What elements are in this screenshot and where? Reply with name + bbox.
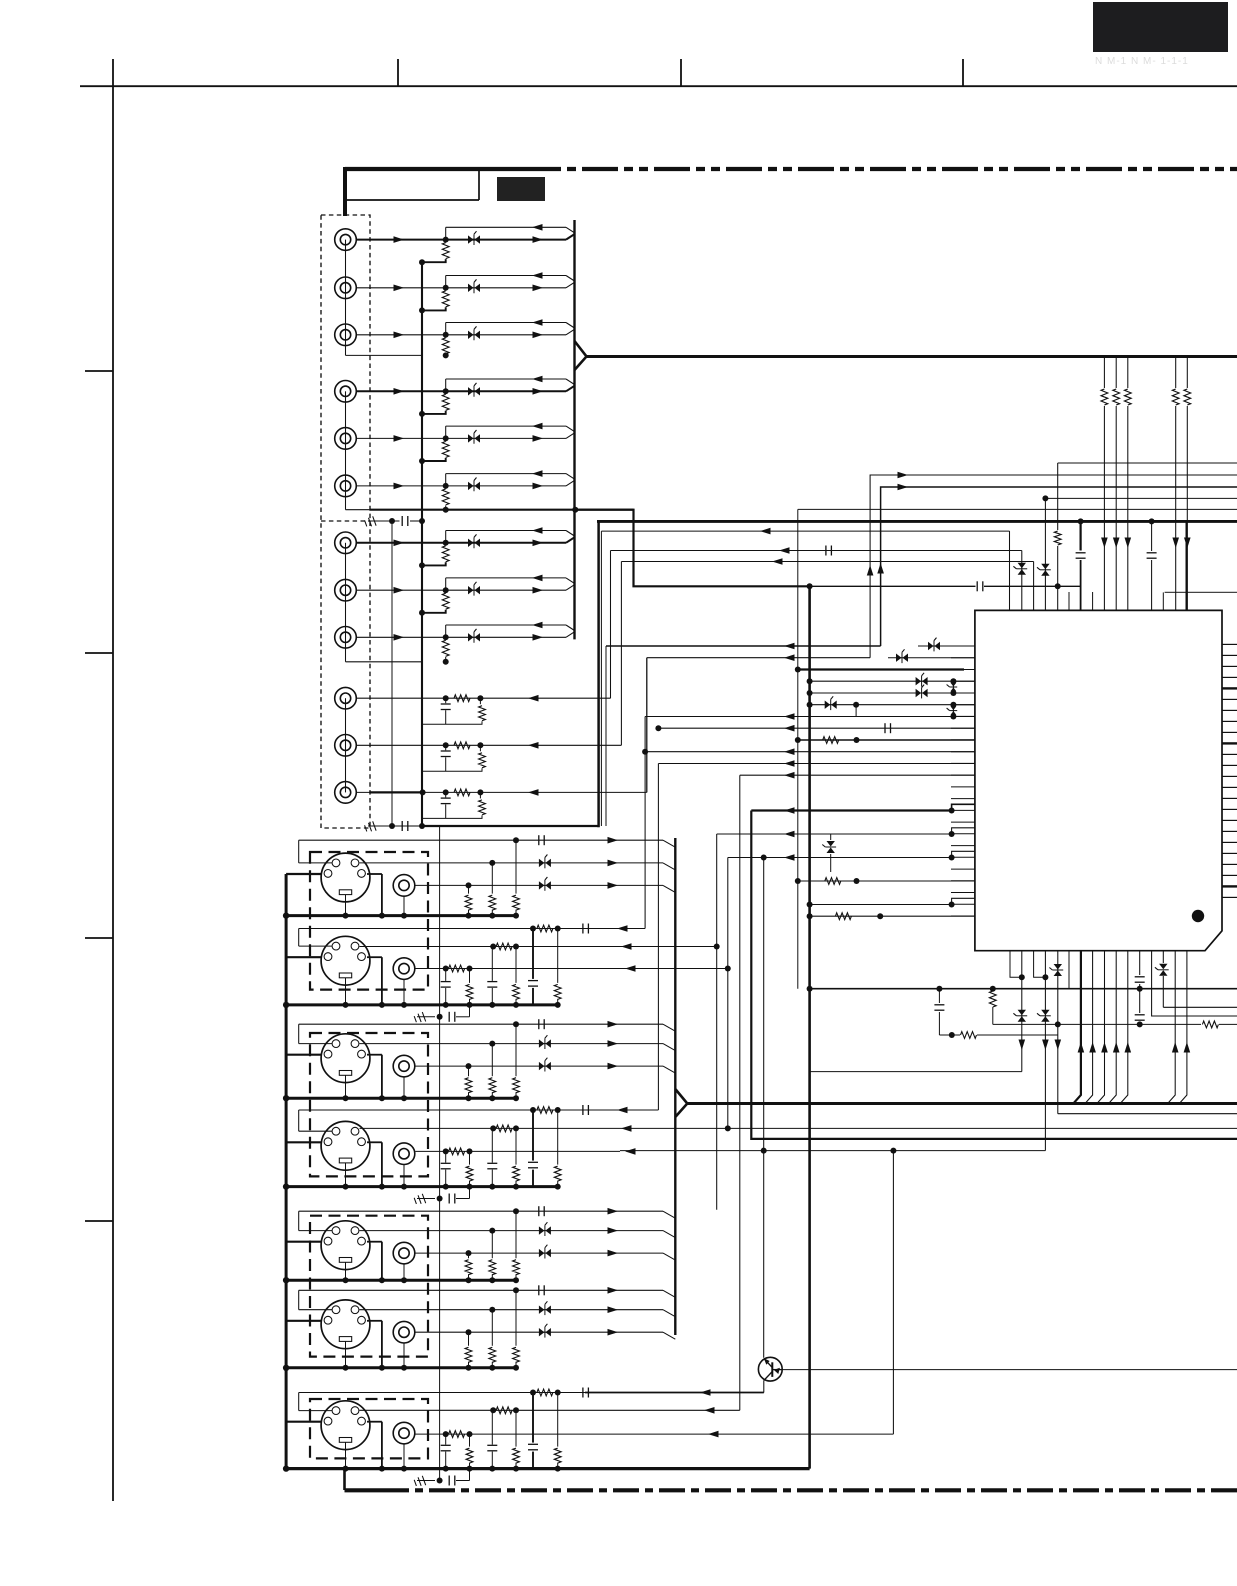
arrow rec A up — [877, 563, 884, 574]
RCA jack J8 — [335, 579, 357, 601]
wire: SV5 shield drop — [381, 1242, 383, 1281]
wire: R6 to bus — [445, 505, 447, 509]
wire: record out B — [870, 475, 1237, 658]
merge arrow SV6 y1332 — [608, 1329, 619, 1336]
wire: down feed x1045 with filter — [1044, 951, 1046, 1151]
wire: filter drop x1163 — [1162, 951, 1164, 963]
arrow J2 out b — [533, 285, 544, 292]
wire: J12 riser — [646, 658, 648, 793]
wire: J11 signal in — [356, 744, 621, 746]
wire: up feed x1080 — [1073, 951, 1081, 1104]
merge arrow SV1 y840 — [608, 837, 619, 844]
RCA jack J6 — [335, 475, 357, 497]
left tick 4 — [85, 1220, 113, 1222]
filter FL22 (vertical) — [830, 834, 832, 840]
resistor R9 — [442, 640, 449, 656]
S-video panel dashed box 4 — [310, 1399, 428, 1458]
junction J1 — [443, 237, 449, 243]
title block (filled) — [1093, 2, 1228, 52]
wire: SV7 key ground — [345, 1442, 347, 1468]
capacitor C41 — [884, 723, 886, 733]
wire: aux riser x797 — [797, 509, 799, 988]
resistor Rs5 x516 — [515, 1211, 517, 1258]
wire: aux riser x1045 with filter — [1044, 498, 1046, 610]
page border top rule — [80, 85, 1237, 87]
wire: link to IC top region — [810, 585, 976, 587]
resistor Rs3 x516 — [515, 1024, 517, 1076]
wire: JV7 ground — [403, 1444, 405, 1469]
wire: SV5 w2 — [360, 1230, 664, 1232]
connector label block (filled) — [497, 177, 545, 201]
capacitor C12 — [445, 792, 447, 797]
wire: J4 return from bus — [446, 378, 566, 380]
wire: y1007 to right edge — [1163, 1006, 1237, 1008]
resistor Rsv4e — [515, 1128, 517, 1164]
U1 bottom stub x1069 — [1068, 951, 1070, 989]
arrow up x1186 — [1184, 1042, 1191, 1053]
wire: aux line y509 — [798, 508, 1237, 510]
capacitor Csv4d — [527, 1161, 539, 1170]
wire: SV6 hook — [299, 1309, 332, 1311]
wire: J8 return from bus — [446, 577, 566, 579]
wire: J5 merge into bus — [566, 433, 575, 439]
component ground bus — [421, 263, 423, 826]
arrow J9 out a — [394, 634, 405, 641]
wire: U1 p9 line — [798, 739, 975, 741]
bus riser to shield bus B — [597, 521, 600, 827]
merge arrow SV5 y1253 — [608, 1250, 619, 1257]
merge arrow SV3 y1066 — [608, 1063, 619, 1070]
wire: g7 w1 link (thick) — [585, 1392, 764, 1394]
S-video panel dashed box 1 — [310, 852, 428, 990]
wire: up feed x1186 — [1179, 951, 1187, 1104]
wire: R7 to bus — [422, 562, 446, 565]
wire: JV4 ground — [403, 1165, 405, 1187]
wire: J6 signal out — [356, 485, 566, 487]
filter FL5 — [468, 434, 474, 442]
S-video connector SV4 — [321, 1121, 370, 1170]
resistor R55 — [1053, 530, 1063, 546]
wire: J3 merge into bus — [566, 329, 575, 335]
resistor Rsv2f — [469, 969, 471, 983]
capacitor Csv7a — [582, 1388, 584, 1398]
wire: SV3 chassis stub — [286, 1054, 321, 1056]
wire: J5 return drop — [445, 426, 447, 438]
arrow J1 return — [532, 224, 543, 231]
group 5 bottom bus (thick) — [286, 1279, 517, 1282]
group 6 bottom bus (thick) — [286, 1366, 517, 1369]
RCA jack JV2 — [393, 958, 415, 980]
capacitor C52 drop — [938, 989, 940, 1003]
wire: network ground 12 — [422, 815, 482, 818]
wire: up feed x1116 — [1108, 951, 1116, 1104]
arrow rec B up — [867, 565, 874, 576]
filter FL20 — [918, 645, 975, 647]
wire: SV7 w2 — [360, 1409, 740, 1411]
shield boundary dash-dot line (bottom) — [345, 1488, 384, 1492]
junction J10a — [443, 695, 449, 701]
wire: top pin riser B with filter — [1021, 551, 1023, 611]
resistor Rsv2b — [490, 944, 496, 950]
riser g2w1 — [644, 717, 646, 929]
capacitor Csv2a — [582, 924, 584, 934]
wire: R3 to bus — [445, 354, 447, 355]
wire: J4 return drop — [445, 379, 447, 391]
arrow J2 return — [532, 272, 543, 279]
resistor Rsv7b — [490, 1407, 496, 1413]
arrow up x1116 — [1113, 1042, 1120, 1053]
group 7 bottom bus (thick) — [283, 1465, 289, 1471]
junction W4a — [807, 583, 813, 589]
filter FLs6a — [539, 1306, 545, 1314]
wire: U1 p5 line — [810, 692, 975, 694]
wire: SV1 w1 — [299, 839, 663, 841]
wire: J3 return from bus — [446, 322, 566, 324]
wire: J9 signal out — [356, 636, 566, 638]
S-video connector SV1 — [321, 853, 370, 902]
U1 pin-1 index dot — [1192, 910, 1204, 922]
resistor Rs5 x492 — [491, 1231, 493, 1259]
wire: SV4 key ground — [345, 1163, 347, 1187]
wire: U1 p17 line — [717, 833, 952, 835]
arrow J7 out b — [533, 540, 544, 547]
wire: riser to S-video 7 — [892, 1151, 894, 1435]
resistor R12b — [479, 792, 481, 798]
wire: U1 p8 line — [658, 727, 975, 729]
wire: SV4 chassis stub — [286, 1141, 321, 1143]
ground assembly below group 4 — [414, 1194, 426, 1206]
wire: J11 riser — [620, 562, 622, 746]
wire: R8 to bus — [422, 610, 446, 613]
wire: R1 to bus — [422, 259, 446, 262]
wire: jacks 1-3 ground chain — [345, 240, 347, 356]
capacitor Csv2f — [445, 969, 447, 981]
RCA jack J2 — [335, 277, 357, 299]
resistor R10b — [479, 698, 481, 704]
arrow J6 return — [532, 470, 543, 477]
resistor R31 — [825, 878, 841, 885]
resistor Rsv4d — [557, 1110, 559, 1165]
capacitor Csv4f — [445, 1151, 447, 1162]
wire: SV6 w1 — [299, 1289, 663, 1291]
merge arrow SV1 y862 — [608, 860, 619, 867]
S-video connector SV7 — [321, 1401, 370, 1450]
ground assembly below group 2 — [414, 1012, 426, 1024]
wire: ground link lower — [368, 825, 400, 827]
wire: up feed x1127 — [1120, 951, 1128, 1104]
wire: J2 return drop — [445, 276, 447, 288]
arrow J3 out b — [533, 332, 544, 339]
junction J10b — [477, 695, 483, 701]
wire: SV1 key ground — [345, 895, 347, 916]
resistor Rv1175 — [1171, 388, 1181, 406]
wire: R9 to bus — [445, 657, 447, 662]
jack panel divider (dotted) — [321, 520, 370, 522]
wire: SV6 shield drop — [381, 1321, 383, 1368]
RCA jack J7 — [335, 532, 357, 554]
junction J6 — [443, 483, 449, 489]
collector bus 1 (vertical) — [573, 220, 575, 639]
wire: p6-p7 link — [855, 705, 857, 717]
shield boundary dash-dot line (top) — [345, 167, 552, 171]
RCA jack J10 — [335, 687, 357, 709]
transistor Q1 — [758, 1357, 782, 1381]
S-video panel dashed box 3 — [310, 1216, 428, 1357]
wire: video feed x1116 — [1115, 357, 1117, 610]
wire: J2 return from bus — [446, 275, 566, 277]
merge arrow SV3 y1043 — [608, 1040, 619, 1047]
arrow J1 out b — [533, 236, 544, 243]
capacitor C50 / C51 stack — [1139, 951, 1141, 975]
wire: SV2 chassis stub — [286, 956, 321, 958]
wire: Q1 collector to right edge — [782, 1369, 1237, 1371]
thick trunk x809 — [808, 586, 811, 1468]
wire: top pin riser A — [1009, 531, 1011, 610]
wire: U1 p15 line (thick) — [751, 809, 951, 811]
bus 2 chevron + thick line — [674, 838, 676, 1335]
collector bus 1 chevron — [575, 341, 587, 370]
wire: SV3 w1 — [299, 1023, 663, 1025]
wire: J1 signal out — [356, 239, 566, 241]
arrow J5 out b — [533, 435, 544, 442]
filter FLs5b — [539, 1249, 545, 1257]
wire: SV6 w2 — [360, 1309, 664, 1311]
wire: SV1 hook — [299, 862, 332, 864]
resistor Rsv7f — [469, 1434, 471, 1447]
resistor Rs3 x492 — [491, 1044, 493, 1077]
wire: SV5 hook — [299, 1230, 332, 1232]
ground assembly below group 7 — [414, 1476, 426, 1488]
capacitor Cs1 — [538, 835, 540, 845]
resistor Rsv7a — [530, 1390, 536, 1396]
RCA jack J3 — [335, 324, 357, 346]
wire: record out A — [881, 487, 1237, 646]
wire: jacks 4-6 ground chain — [345, 391, 347, 509]
riser g7w2 — [739, 775, 741, 1410]
arrow J8 return — [532, 575, 543, 582]
group 3 bottom bus (thick) — [286, 1097, 517, 1100]
wire: shield B drop with C42 — [1078, 518, 1084, 524]
RCA jack J12 — [335, 782, 357, 804]
filter FL4 — [468, 387, 474, 395]
wire: J8 signal out — [356, 589, 566, 591]
wire: SV2 shield drop — [381, 957, 383, 1005]
junction J2 — [443, 285, 449, 291]
wire: JV1 ground — [403, 896, 405, 915]
resistor Rs6 x516 — [515, 1290, 517, 1346]
U1 right pin stubs — [1222, 643, 1237, 645]
wire: video feed x1104 — [1103, 357, 1105, 610]
wire: U1 p19 line — [728, 857, 952, 859]
top tick 2 — [680, 59, 682, 86]
wire: SV1 chassis stub — [286, 873, 321, 875]
wire: SV4 shield drop — [381, 1142, 383, 1186]
riser monitor drop — [600, 531, 602, 826]
arrow up x1127 — [1125, 1042, 1132, 1053]
arrow J3 return — [532, 319, 543, 326]
merge arrow SV6 y1290 — [608, 1287, 619, 1294]
shield box right wire — [478, 169, 480, 200]
U1 bottom stub jog A — [1010, 951, 1022, 978]
resistor Rsv2c — [443, 966, 449, 972]
wire: down feed x1057 with filter — [1057, 951, 1059, 1114]
resistor Rs3 x468 — [468, 1066, 470, 1076]
wire: ground link upper — [368, 520, 400, 522]
capacitor C40b — [825, 546, 827, 556]
arrow up x1080 — [1078, 1042, 1085, 1053]
S-video panel dashed box 2 — [310, 1033, 428, 1176]
U1 left pin 3 (thick) — [964, 669, 975, 671]
wire: SV7 hook — [299, 1410, 332, 1412]
arrow J8 out a — [394, 587, 405, 594]
wire: SV4 hook — [299, 1130, 332, 1132]
wire: J1 return drop — [445, 227, 447, 239]
capacitor Csv7d — [527, 1443, 539, 1452]
wire: J7 signal out — [356, 542, 566, 544]
wire: U1 p11 line — [658, 763, 975, 765]
resistor Rs6 x468 — [468, 1332, 470, 1346]
S-video connector SV5 — [321, 1221, 370, 1270]
wire: top pin riser C — [1033, 562, 1035, 611]
wire: SV7 chassis stub — [286, 1421, 321, 1423]
wire: SV2 w3 — [415, 968, 727, 970]
wire: U1 p1 line (rises to record out) — [606, 645, 881, 647]
wire: ground line y988 — [810, 988, 1237, 990]
resistor Rv1187 — [1182, 388, 1192, 406]
top tick 1 — [397, 59, 399, 86]
wire: thick bus segment y510 — [346, 509, 370, 511]
filter FLs5a — [539, 1226, 545, 1234]
wire: U1 p23 line — [810, 904, 952, 906]
resistor Rs1 x492 — [491, 863, 493, 894]
arrow J9 out b — [533, 634, 544, 641]
junction J5 — [443, 435, 449, 441]
arrow J4 out b — [533, 388, 544, 395]
RCA jack JV1 — [393, 875, 415, 897]
left tick 1 — [85, 370, 113, 372]
filter FL8 — [468, 586, 474, 594]
wire: trio4 shield link (thick) — [369, 791, 422, 793]
RCA jack JV7 — [393, 1422, 415, 1444]
wire: U1 p2 line (rises to record out) — [647, 657, 870, 659]
RCA jack JV5 — [393, 1242, 415, 1264]
arrow J12 in — [528, 789, 539, 796]
wire: video feed x1175 — [1175, 357, 1177, 610]
wire: SV7 w1 — [299, 1392, 764, 1394]
wire: gray line y592 — [1165, 591, 1237, 593]
group 1 bottom bus (thick) — [286, 914, 517, 917]
RCA jack J1 — [335, 229, 357, 251]
wire: network ground 10 — [422, 721, 482, 724]
resistor Rv1104 — [1099, 388, 1109, 406]
resistor R4 — [442, 394, 449, 410]
arrow J2 out a — [394, 285, 405, 292]
capacitor C-upper — [401, 516, 403, 526]
wire: assembly rise 7 — [469, 1469, 471, 1481]
U1 top stubs — [1068, 592, 1070, 610]
riser g4w1 — [657, 764, 659, 1111]
audio input jack panel (dotted outline) — [321, 215, 370, 828]
junction J12b — [477, 789, 483, 795]
wire: U1 p24 line — [810, 915, 975, 917]
resistor Rsv2d — [557, 929, 559, 983]
wire: J7 return from bus — [446, 530, 566, 532]
wire: shield B drop with C43 — [1149, 518, 1155, 524]
resistor R12 — [454, 789, 470, 796]
resistor Rsv7d — [557, 1393, 559, 1447]
RCA jack J11 — [335, 735, 357, 757]
wire: R5 to bus — [422, 458, 446, 461]
wire: J9 merge into bus — [566, 632, 575, 638]
wire: R4 to bus — [422, 411, 446, 414]
wire: y1150 line — [620, 1150, 1045, 1152]
resistor R10 — [454, 695, 470, 702]
arrow J5 out a — [394, 435, 405, 442]
wire: J8 merge into bus — [566, 585, 575, 591]
junction J11b — [477, 742, 483, 748]
group 4 bottom bus (thick) — [286, 1185, 558, 1188]
wire: U1 p10 line — [645, 751, 975, 753]
wire: J8 return drop — [445, 578, 447, 590]
RCA jack J5 — [335, 428, 357, 450]
wire: drop x1151 to y1016 — [1152, 951, 1237, 1016]
wire: J6 return drop — [445, 474, 447, 486]
wire: SV5 w3 — [415, 1252, 663, 1254]
resistor R8 — [442, 593, 449, 609]
wire: J7 merge into bus — [566, 537, 575, 543]
arrow J5 return — [532, 423, 543, 430]
wire: shield B drop thick — [1185, 521, 1187, 610]
filter FL7 — [468, 539, 474, 547]
left tick 2 — [85, 652, 113, 654]
resistor R1 — [442, 243, 449, 259]
wire: J12 signal in — [356, 791, 647, 793]
wire: vertical link x439 — [439, 826, 441, 1481]
RCA jack J9 — [335, 627, 357, 649]
wire: down feed x1021 with filter — [1021, 951, 1023, 1072]
RCA jack JV4 — [393, 1143, 415, 1165]
filter FLs3b — [539, 1062, 545, 1070]
resistor R2 — [442, 291, 449, 307]
resistor R30 — [823, 737, 839, 744]
arrow down x1175 — [1172, 538, 1179, 549]
capacitor Csv7f — [445, 1434, 447, 1445]
arrow J3 out a — [394, 332, 405, 339]
capacitor Csv2d — [527, 979, 539, 988]
riser g4w2 — [727, 858, 729, 1129]
wire: SV1 w2 — [360, 862, 664, 864]
junction J4 — [443, 388, 449, 394]
arrow up x1104 — [1101, 1042, 1108, 1053]
filter FL1 — [468, 235, 474, 243]
filter FL6 — [468, 482, 474, 490]
video switch IC U1 — [975, 610, 1222, 950]
wire: SV4 w2 — [360, 1127, 728, 1129]
wire: video feed x1187 — [1186, 357, 1188, 610]
merge arrow SV6 y1309 — [608, 1306, 619, 1313]
wire: SV3 w3 — [415, 1065, 663, 1067]
wire: J2 signal out — [356, 287, 566, 289]
wire: riser x1057 full — [1057, 463, 1059, 610]
shield bus B (thick, to right edge) — [597, 520, 1237, 523]
U1 left pin stubs — [951, 645, 975, 647]
wire: assembly rise 4 — [469, 1187, 471, 1199]
arrow down x1187 — [1184, 538, 1191, 549]
wire: SV2 hook — [299, 945, 332, 947]
wire: y1035 with R54 — [939, 1034, 960, 1036]
wire: monitor line C — [621, 561, 1033, 563]
merge arrow SV1 y885 — [608, 882, 619, 889]
